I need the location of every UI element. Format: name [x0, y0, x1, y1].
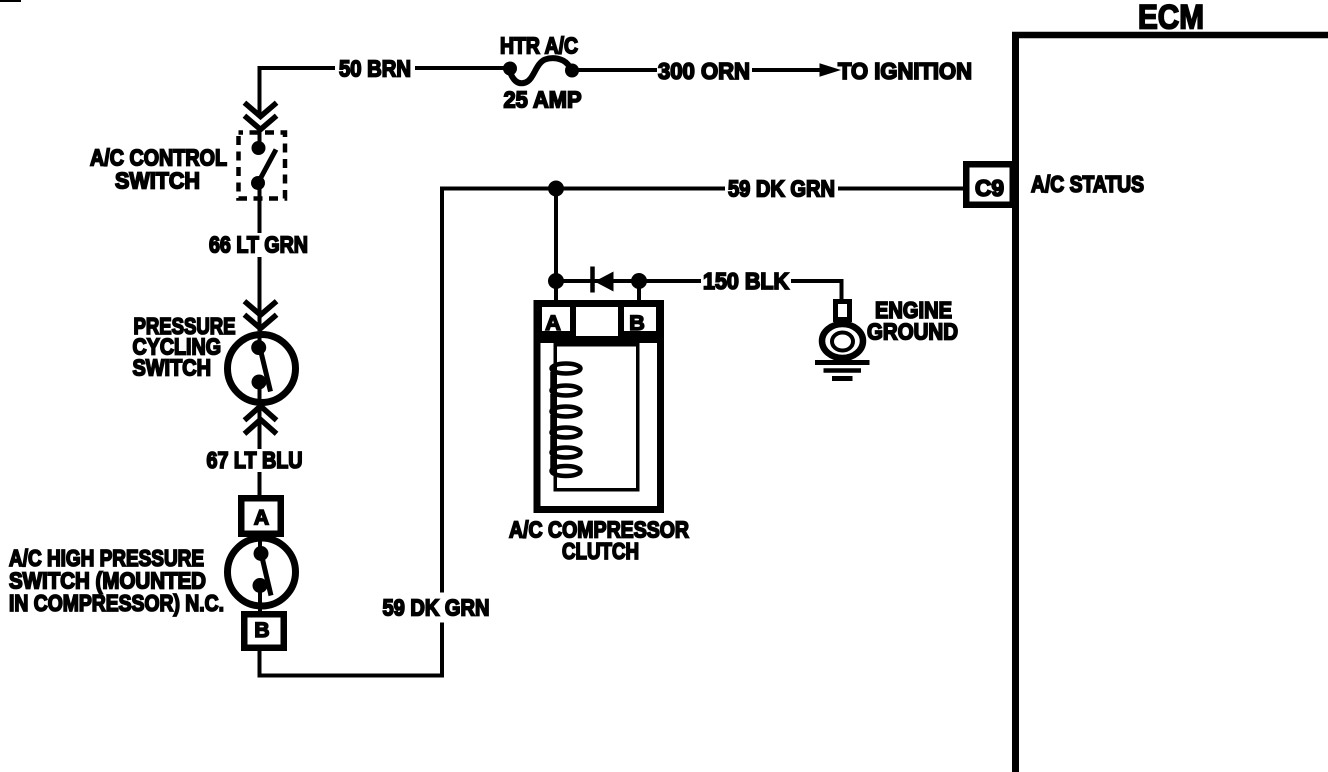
connector chevrons below pressure cycling switch [247, 406, 275, 432]
svg-text:GROUND: GROUND [867, 319, 958, 345]
switch blade [261, 350, 271, 392]
wire riser up to 59 DK GRN bus [442, 189, 556, 593]
svg-text:25 AMP: 25 AMP [504, 87, 582, 113]
wire 66 LT GRN [258, 186, 262, 233]
svg-text:C9: C9 [975, 175, 1004, 201]
svg-text:SWITCH: SWITCH [115, 168, 200, 194]
wire [258, 472, 262, 498]
connector chevrons above pressure cycling switch [247, 303, 275, 329]
clutch terminal A [539, 303, 573, 334]
wire stub into switch [258, 128, 262, 143]
svg-text:67 LT BLU: 67 LT BLU [207, 447, 303, 473]
wire diode row [556, 279, 646, 283]
svg-text:66 LT GRN: 66 LT GRN [209, 232, 308, 258]
svg-text:ECM: ECM [1138, 0, 1204, 37]
svg-text:CLUTCH: CLUTCH [562, 538, 639, 564]
node at clutch B [631, 273, 647, 289]
svg-text:150 BLK: 150 BLK [703, 268, 789, 294]
wire stub to B [637, 281, 641, 303]
svg-text:B: B [629, 311, 645, 335]
svg-text:A: A [545, 311, 561, 335]
node junction on 59 DK GRN bus [548, 181, 564, 197]
wire 50 BRN [260, 68, 508, 114]
clutch coil L1 [552, 364, 581, 477]
svg-text:A: A [254, 507, 269, 530]
wire 59 DK GRN to C9 [556, 187, 725, 191]
pressure cycling switch [228, 335, 296, 403]
svg-text:B: B [254, 619, 269, 642]
svg-text:HTR A/C: HTR A/C [500, 33, 578, 59]
wire to engine ground [791, 281, 842, 300]
svg-text:59 DK GRN: 59 DK GRN [728, 176, 835, 202]
wire stub [258, 386, 262, 402]
wire [258, 257, 262, 331]
switch contacts [254, 546, 269, 561]
connector chevrons above A/C control switch [247, 105, 275, 130]
svg-text:59 DK GRN: 59 DK GRN [383, 595, 490, 621]
switch contacts [251, 340, 266, 355]
switch blade [259, 150, 277, 183]
diode D1 [593, 267, 614, 293]
connector C9 [966, 164, 1013, 205]
wire stub [258, 334, 262, 345]
clutch divider [537, 336, 660, 343]
ECM box outline [1012, 32, 1328, 772]
svg-text:IN COMPRESSOR) N.C.: IN COMPRESSOR) N.C. [9, 590, 224, 616]
svg-text:50 BRN: 50 BRN [339, 56, 411, 82]
wire stub [258, 590, 262, 614]
clutch terminal B [621, 303, 659, 334]
clutch inner frame [555, 345, 638, 490]
svg-text:TO IGNITION: TO IGNITION [838, 58, 972, 84]
svg-text:SWITCH: SWITCH [133, 355, 212, 381]
A/C compressor clutch outer box [537, 304, 661, 510]
A/C high pressure switch terminal A [241, 498, 281, 534]
A/C high pressure switch terminal B [244, 614, 284, 648]
wire 150 BLK [646, 279, 701, 283]
switch blade [262, 555, 272, 596]
A/C control switch (dashed box) [239, 133, 286, 199]
wire bus to C9 [838, 187, 963, 191]
switch contacts [252, 141, 266, 155]
arrow to ignition [820, 63, 842, 77]
svg-text:300 ORN: 300 ORN [658, 58, 750, 84]
svg-text:A/C STATUS: A/C STATUS [1031, 171, 1144, 197]
node junction at diode [548, 273, 564, 289]
wire stub [258, 537, 262, 549]
wire 300 ORN [578, 68, 822, 72]
fuse HTR A/C 25 AMP [503, 58, 579, 83]
wire from B terminal to 59 DK GRN riser [260, 623, 443, 676]
A/C high pressure switch body [228, 538, 296, 606]
engine ground symbol [815, 302, 870, 379]
wire 67 LT BLU [258, 408, 262, 449]
decorative scan bar [0, 0, 21, 2]
wire junction down to clutch A [554, 189, 558, 304]
